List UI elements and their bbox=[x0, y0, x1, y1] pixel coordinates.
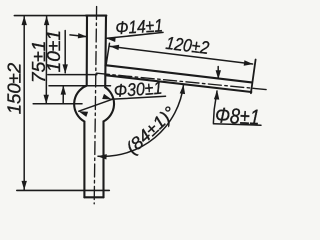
dimension Φ8: lower arrow (up) with bent tail bbox=[213, 91, 217, 123]
extension line: top edge level (y=15.6) bbox=[14, 15, 87, 17]
extension line: bottom baseline bbox=[17, 189, 110, 191]
side tube end cap / extension line bbox=[251, 60, 256, 94]
svg-text:Φ14±1: Φ14±1 bbox=[115, 15, 164, 38]
dimension line 10±1 upper (arrow down) bbox=[64, 31, 66, 73]
svg-text:Φ8±1: Φ8±1 bbox=[215, 103, 261, 129]
part outline right: vertical tube right edge + bulge right arc bbox=[104, 16, 115, 198]
dimension Φ30: diameter line through bulge bbox=[79, 100, 112, 112]
dimension Φ14: left arrow bbox=[70, 35, 87, 37]
svg-text:150±2: 150±2 bbox=[4, 63, 24, 115]
svg-text:Φ30±1: Φ30±1 bbox=[113, 78, 163, 101]
dimension Φ14: right arrow with tail under label bbox=[107, 32, 163, 38]
part outline left: vertical tube + bulge left arc bbox=[74, 16, 87, 198]
dimension line 75±1 bbox=[45, 17, 47, 104]
centerline: side tube axis (dash-dot) bbox=[96, 73, 267, 90]
part outline: tube top end cap bbox=[86, 15, 106, 17]
extension line B: lower junction level bbox=[49, 85, 111, 87]
dimension line 150±2 (left vertical) bbox=[23, 17, 25, 190]
leader underline for Φ8±1 bbox=[213, 124, 261, 125]
extension line: bulge center level (75 dim) bbox=[33, 103, 82, 105]
svg-text:10±1: 10±1 bbox=[44, 30, 64, 73]
leader underline for Φ30±1 bbox=[111, 96, 166, 99]
centerline: vertical tube axis (dash-dot) bbox=[94, 7, 96, 204]
extension line for 120 at junction bbox=[106, 43, 110, 65]
angle arc (84±1)° bbox=[98, 85, 184, 156]
dimension line 120±2 bbox=[110, 46, 252, 64]
dimension line 10±1 lower (arrow up) bbox=[62, 86, 64, 103]
part outline: tube bottom cap bbox=[84, 196, 103, 198]
extension line A: side tube axis level bbox=[48, 74, 97, 76]
dimension Φ8: upper arrow (down) bbox=[217, 67, 219, 79]
side tube bottom edge bbox=[105, 75, 251, 92]
svg-text:(84±1)°: (84±1)° bbox=[122, 102, 180, 158]
side tube top edge bbox=[105, 65, 251, 82]
